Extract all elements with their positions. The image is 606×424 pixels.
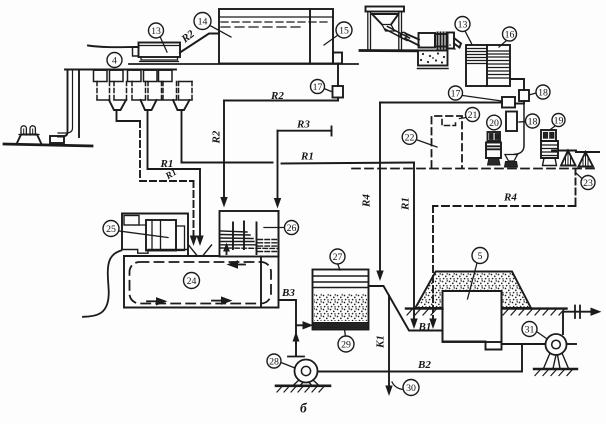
svg-text:16: 16 — [505, 29, 515, 40]
svg-text:17: 17 — [451, 88, 461, 99]
svg-text:R2: R2 — [270, 90, 284, 102]
svg-text:29: 29 — [341, 339, 351, 350]
svg-text:B1: B1 — [418, 321, 432, 333]
svg-text:B3: B3 — [281, 287, 295, 299]
svg-text:23: 23 — [583, 178, 593, 189]
svg-text:28: 28 — [269, 356, 279, 367]
svg-text:15: 15 — [339, 25, 349, 36]
svg-text:14: 14 — [198, 16, 208, 27]
svg-text:31: 31 — [525, 324, 535, 335]
svg-text:R4: R4 — [503, 192, 517, 204]
svg-text:R2: R2 — [211, 130, 223, 144]
svg-text:18: 18 — [538, 87, 548, 98]
svg-text:27: 27 — [333, 252, 343, 263]
svg-text:30: 30 — [406, 383, 416, 394]
svg-text:4: 4 — [112, 55, 117, 66]
svg-text:5: 5 — [478, 251, 483, 262]
svg-text:13: 13 — [458, 19, 468, 30]
svg-text:20: 20 — [489, 118, 499, 129]
svg-text:25: 25 — [106, 224, 116, 235]
svg-text:22: 22 — [405, 132, 415, 143]
svg-text:26: 26 — [287, 223, 297, 234]
svg-text:R1: R1 — [400, 197, 412, 211]
svg-text:B2: B2 — [417, 359, 431, 371]
svg-text:13: 13 — [151, 26, 161, 37]
svg-text:24: 24 — [187, 276, 197, 287]
svg-text:R4: R4 — [361, 194, 373, 208]
svg-text:R3: R3 — [296, 119, 310, 131]
svg-text:R1: R1 — [300, 151, 314, 163]
svg-text:19: 19 — [554, 115, 564, 126]
svg-text:17: 17 — [313, 82, 323, 93]
svg-text:21: 21 — [468, 110, 478, 121]
svg-text:K1: K1 — [375, 335, 387, 349]
svg-text:18: 18 — [528, 116, 538, 127]
